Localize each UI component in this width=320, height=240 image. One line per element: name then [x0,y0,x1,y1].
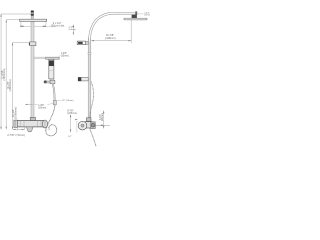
dimension label A (rotated) [0,69,6,81]
pipe-hose dimension [25,103,53,109]
dimension line 2 (left middle) [6,20,20,130]
top right label [144,12,151,16]
svg-text:(70mm): (70mm) [144,15,150,17]
front view: valve left cap [14,120,17,127]
side view: pipe clamp tick [88,53,91,54]
front view: valve right knob [42,120,47,128]
svg-text:(92mm) dia.: (92mm) dia. [51,24,65,28]
front view: spout outlet [26,127,33,132]
front view: hose fitting [53,100,56,104]
svg-text:2-7/8" (73mm): 2-7/8" (73mm) [7,133,25,137]
front view: valve body [17,121,45,127]
svg-text:(54mm): (54mm) [69,29,76,31]
side view: gooseneck arm [90,13,137,41]
svg-text:1/2" (15mm): 1/2" (15mm) [62,100,74,102]
front view: hose lower loop [46,105,57,136]
front view: holder arm to pipe [34,57,46,59]
dimension label B (rotated) [6,79,12,91]
holder label 1-3/8 (35mm) [58,53,69,58]
front view: riser-valve nut [30,117,35,120]
svg-text:(1961mm): (1961mm) [2,69,6,81]
right vertical dimension (rotated) [99,111,104,129]
svg-text:(1800mm): (1800mm) [8,79,12,91]
front view: hand shower holder bar [46,57,59,59]
svg-text:16-7/8": 16-7/8" [106,33,114,37]
side view: label extension line [137,13,144,15]
side view: hose tail [90,129,96,147]
side view: ball joint [132,15,137,18]
hose length label [56,100,73,102]
small vertical dimension near top middle [69,25,76,35]
dimension label C (rotated) [11,107,17,119]
svg-text:(1080mm): (1080mm) [13,107,17,119]
side view: valve body [85,122,92,128]
side view: holder [78,77,88,81]
front view: riser pipe [31,22,34,118]
middle vertical dimension [67,109,78,138]
side view: wall flange [91,122,95,129]
side view: arm end cap [135,11,137,15]
side view: valve knob [78,121,87,130]
front view: hand shower holder cup and arm [44,79,55,84]
head width label [46,21,65,28]
front view: arm fitting block [31,11,34,20]
side view: hose [90,82,94,120]
side view: wall bracket [77,41,88,45]
bottom dimension 2-7/8 (73mm) [7,127,25,137]
reach dimension 16-7/8 (428mm) [91,20,131,43]
front view: shower head top bar [20,19,47,21]
svg-text:(35mm): (35mm) [38,108,46,110]
svg-text:(225mm): (225mm) [67,112,77,115]
side view: outlet line with arrow [95,124,110,126]
svg-text:(95mm): (95mm) [101,113,104,121]
front view: shower head skirt [20,22,46,27]
side view: riser pipe [88,39,91,120]
svg-text:1/2": 1/2" [68,136,72,138]
dimension line 1 (left outer) [0,14,30,129]
side view: head bar [124,18,147,20]
svg-text:1-3/8": 1-3/8" [38,105,44,107]
front view: slide bracket [29,42,36,46]
front view: hand shower [49,59,54,79]
front view: hose upper [53,84,55,101]
svg-text:(428mm): (428mm) [105,36,116,40]
dimension line 3 (left inner) [12,43,30,130]
side view: valve nut [86,118,91,121]
svg-text:(35mm): (35mm) [61,56,69,58]
